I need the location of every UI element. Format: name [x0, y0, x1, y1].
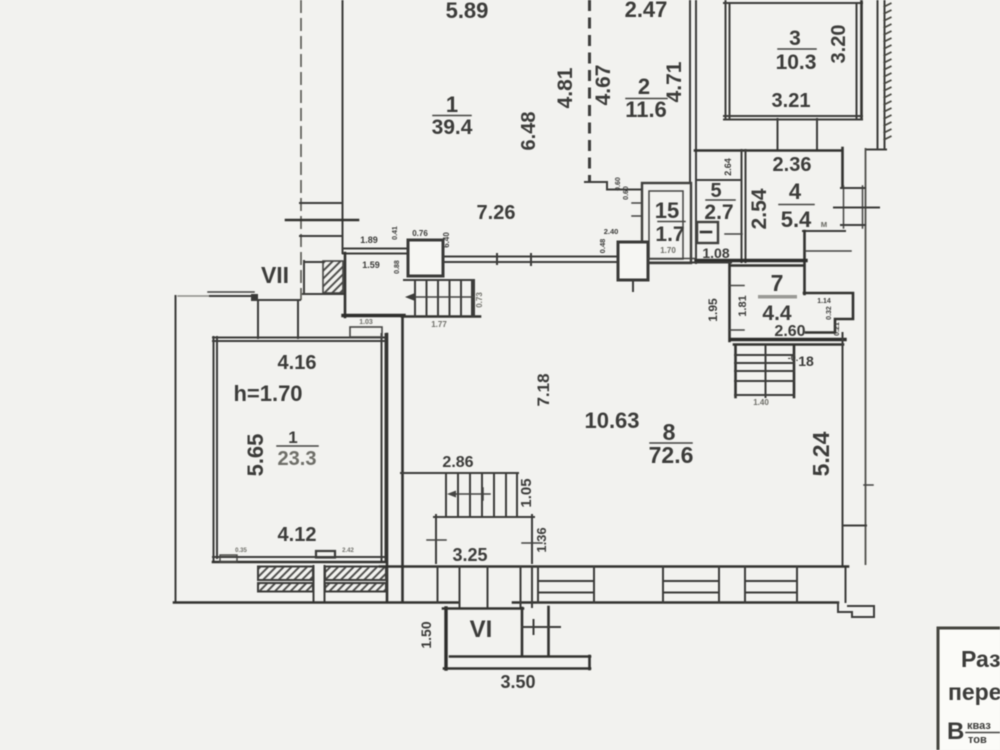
svg-text:0.88: 0.88 [394, 260, 401, 274]
bottom wall band top line [380, 565, 848, 568]
stairs upper rails [404, 279, 474, 281]
svg-text:1.40: 1.40 [753, 398, 769, 407]
wall hatched right retaining A [877, 0, 879, 148]
svg-text:2.40: 2.40 [604, 227, 619, 236]
window b3 [744, 567, 746, 602]
svg-text:1.59: 1.59 [362, 260, 380, 270]
svg-text:4.16: 4.16 [278, 352, 317, 374]
room 15 closet inner [649, 191, 683, 259]
svg-text:0.41: 0.41 [392, 226, 399, 240]
svg-text:1.36: 1.36 [534, 527, 549, 552]
wire dashed wall step [585, 182, 641, 190]
stairs small SE [734, 346, 737, 397]
wire room4 se wall [803, 230, 845, 232]
svg-text:5.24: 5.24 [808, 431, 834, 476]
door box room5 [697, 222, 718, 243]
svg-text:0.73: 0.73 [475, 292, 484, 308]
stairs upper risers [414, 280, 416, 316]
lobby left wall [344, 253, 347, 317]
wall room 23.3 left pair [213, 337, 215, 562]
svg-text:2.36: 2.36 [773, 154, 812, 176]
wire room7 right zigzag [804, 293, 853, 333]
svg-text:1.70: 1.70 [660, 246, 676, 255]
svg-text:4: 4 [789, 179, 802, 204]
svg-text:2.42: 2.42 [342, 548, 354, 554]
wire porch side A [257, 300, 259, 338]
wire chamber bottom / room5 top [697, 179, 741, 181]
svg-text:15: 15 [655, 198, 679, 223]
wire pilaster top tick [843, 525, 866, 527]
svg-text:тов: тов [968, 734, 987, 746]
wire corridor tick [496, 254, 498, 264]
svg-text:1.81: 1.81 [737, 295, 749, 316]
wire band right end vertical [845, 567, 847, 602]
svg-text:7.26: 7.26 [477, 202, 516, 224]
door rect room1 top [350, 327, 382, 337]
wire porch step [252, 296, 300, 300]
tiny bump bottom room1 [316, 551, 335, 558]
svg-text:2.7: 2.7 [704, 201, 733, 224]
corridor right pair [443, 256, 618, 258]
svg-text:2: 2 [638, 74, 650, 99]
window ladder right rails [843, 186, 845, 228]
wall jamb right of room4 door [803, 231, 806, 294]
svg-text:м: м [821, 219, 828, 229]
wire SE notch [838, 603, 874, 618]
svg-text:5.65: 5.65 [243, 434, 268, 477]
hatched stylobate block left [258, 567, 313, 592]
wire porch threshold [208, 291, 254, 293]
svg-text:3: 3 [789, 27, 801, 50]
window b2 [662, 567, 664, 602]
column B [618, 242, 648, 280]
wall room4 right [841, 148, 844, 187]
wall top of room4 zone [695, 149, 842, 152]
wall room7 left [728, 264, 731, 341]
wall divider room1/room8 A [386, 334, 389, 602]
svg-text:4.67: 4.67 [592, 65, 615, 106]
stairs lower rails [401, 472, 518, 474]
lobby bottom wall [343, 314, 404, 317]
svg-text:1: 1 [446, 92, 458, 117]
svg-text:0.21: 0.21 [834, 322, 841, 336]
landing box [435, 515, 437, 563]
tiny box bottom-left room1 [220, 555, 237, 562]
wall room3 bottom pair [724, 115, 862, 117]
VI platform [450, 655, 590, 658]
svg-text:1.77: 1.77 [431, 320, 447, 329]
svg-text:5: 5 [710, 180, 721, 202]
svg-text:1.89: 1.89 [360, 235, 378, 245]
svg-text:23.3: 23.3 [278, 448, 317, 470]
room 23.3 bottom wall pair [213, 556, 386, 558]
svg-text:1.50: 1.50 [418, 621, 434, 648]
wire bottom boundary [174, 601, 459, 604]
svg-text:6.40: 6.40 [442, 232, 451, 248]
svg-text:-0.: -0. [788, 353, 799, 363]
svg-text:VI: VI [470, 616, 493, 643]
column A [408, 240, 443, 276]
svg-text:VII: VII [261, 262, 289, 288]
svg-text:1.05: 1.05 [518, 478, 535, 507]
svg-text:11.6: 11.6 [625, 97, 667, 122]
svg-text:1.14: 1.14 [817, 298, 831, 305]
svg-text:18: 18 [798, 353, 814, 369]
svg-text:39.4: 39.4 [432, 116, 473, 139]
svg-text:0.60: 0.60 [623, 186, 630, 200]
svg-text:3.21: 3.21 [772, 90, 811, 112]
wire retaining step [866, 149, 886, 151]
wall rooms bottom (15/5/4) [696, 259, 806, 262]
wire door line room5 [725, 233, 742, 235]
svg-text:0.35: 0.35 [235, 548, 247, 554]
svg-text:5.4: 5.4 [781, 207, 812, 232]
wall room 23.3 right pair [381, 334, 383, 562]
room 7 top wall [731, 264, 804, 267]
wire left outer wall main line [342, 0, 344, 253]
stairs arrow [410, 296, 474, 298]
svg-text:7: 7 [771, 270, 784, 296]
wall divider room1/room8 B [401, 317, 404, 602]
wall dashed partition room2 [588, 0, 591, 181]
wire sill below pier [303, 293, 343, 295]
svg-text:1.95: 1.95 [706, 298, 720, 322]
svg-text:4.12: 4.12 [278, 524, 317, 546]
wire tick landing right [522, 542, 542, 544]
wall room3 left pair [725, 0, 727, 118]
room 7 bottom thick wall [731, 338, 845, 341]
svg-text:1.08: 1.08 [702, 245, 729, 261]
wire tick landing left [427, 539, 446, 541]
room 3 top wall [724, 2, 862, 4]
svg-text:4.71: 4.71 [663, 61, 686, 102]
svg-text:5.89: 5.89 [446, 0, 489, 23]
wire VI step tick [522, 626, 560, 628]
svg-text:6.48: 6.48 [518, 112, 540, 151]
wire window tick lower [300, 235, 342, 237]
svg-text:0.32: 0.32 [826, 306, 833, 320]
window ladder rungs [841, 187, 865, 189]
stamp box [938, 628, 1000, 750]
svg-text:0.76: 0.76 [412, 229, 428, 238]
wire door ticks room7 [729, 285, 744, 287]
wire band verticals VI area [437, 567, 439, 602]
svg-text:2.60: 2.60 [774, 323, 805, 340]
wire porch side B [297, 300, 299, 338]
wall room2 right [689, 0, 691, 183]
svg-text:2.86: 2.86 [442, 454, 473, 471]
svg-text:3.20: 3.20 [828, 25, 850, 64]
svg-text:1: 1 [288, 428, 297, 447]
wire window tick long [286, 219, 358, 222]
stairs lower arrow [452, 493, 490, 495]
wire tick right wall [864, 484, 873, 486]
wire tick below column B [632, 280, 634, 291]
svg-text:10.63: 10.63 [584, 408, 639, 433]
svg-text:2.54: 2.54 [748, 188, 771, 229]
wire left site boundary [175, 296, 177, 602]
svg-text:72.6: 72.6 [649, 442, 694, 468]
svg-text:Раз: Раз [961, 646, 1000, 672]
wire porch boundary top [178, 295, 210, 297]
svg-text:1.7: 1.7 [655, 223, 684, 246]
entrance VI [444, 608, 447, 669]
svg-text:2.47: 2.47 [625, 0, 668, 22]
wire window tick upper [300, 202, 342, 204]
svg-text:2.64: 2.64 [723, 158, 733, 176]
wire gap pipes [313, 566, 315, 602]
room 15 closet outer [642, 183, 691, 263]
wire left outer wall inner line [300, 0, 302, 300]
svg-text:h=1.70: h=1.70 [233, 381, 302, 406]
svg-text:3.25: 3.25 [452, 545, 487, 565]
svg-text:кваз: кваз [967, 720, 991, 732]
svg-text:3.50: 3.50 [500, 672, 535, 692]
svg-text:1.03: 1.03 [359, 319, 373, 326]
wall room3 right pair [856, 3, 858, 118]
svg-text:10.3: 10.3 [776, 51, 817, 74]
wire niche jamb [303, 261, 305, 294]
wire duct left [777, 119, 779, 150]
wire door swing line room4 [805, 250, 851, 252]
svg-text:0.60: 0.60 [615, 177, 622, 191]
window b1 [537, 567, 539, 602]
svg-text:0.48: 0.48 [598, 239, 607, 254]
corridor upper pair from VII [343, 248, 408, 250]
wall hatched pier VII [323, 261, 343, 293]
wall room4 left pair [741, 150, 743, 262]
wire door ticks room15 [632, 202, 642, 204]
svg-text:4.81: 4.81 [554, 67, 577, 108]
room 23.3 top wall pair [213, 337, 386, 339]
hatched stylobate block right [325, 567, 386, 592]
svg-text:4.4: 4.4 [762, 302, 792, 325]
wire right outer wall [865, 148, 867, 565]
svg-text:В: В [947, 718, 964, 745]
wire junction blob [251, 294, 258, 301]
svg-text:пере: пере [948, 679, 1000, 705]
svg-text:7.18: 7.18 [534, 373, 553, 406]
wall right of room8 inner [842, 333, 844, 565]
stairs lower risers [445, 474, 447, 515]
wire duct right [816, 119, 818, 150]
corridor continue [648, 258, 696, 260]
